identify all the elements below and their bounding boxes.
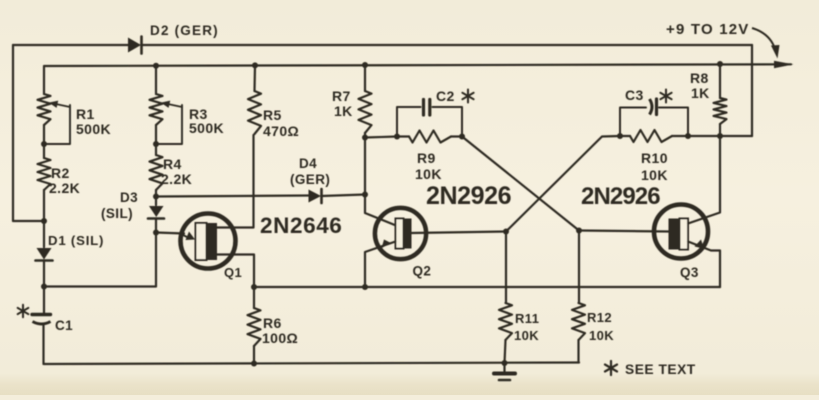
node R4-D4 junction: [153, 194, 159, 200]
wire R7 bottom to Q2 collector: [365, 133, 396, 226]
label 100ohm: [262, 330, 298, 346]
label 1K (R8): [691, 85, 710, 101]
label R7: [332, 88, 351, 104]
capacitor C1: [32, 315, 51, 325]
svg-text:R2: R2: [51, 165, 70, 181]
label R9: [417, 150, 436, 166]
wire R7 node to R9: [365, 137, 397, 138]
asterisk C1: [18, 305, 29, 317]
node supply-R8: [717, 61, 723, 67]
label R5: [263, 107, 282, 123]
wire C1 to bottom rail: [42, 325, 44, 364]
node Q2 base column: [503, 229, 509, 235]
resistor R5: [248, 91, 261, 134]
label Q1: [224, 265, 242, 280]
svg-text:R8: R8: [690, 70, 709, 86]
wire R11 bottom lead: [505, 340, 506, 363]
label 10K (R11): [514, 328, 539, 343]
capacitor C2 plates: [424, 100, 430, 116]
wire R4/D3 node to D4: [156, 196, 309, 197]
svg-text:R4: R4: [163, 156, 182, 172]
wire R1-R2: [43, 125, 45, 158]
wire R9 leads: [397, 135, 462, 137]
label C1: [55, 318, 73, 333]
svg-text:D1 (SIL): D1 (SIL): [48, 233, 104, 248]
svg-text:470Ω: 470Ω: [263, 123, 299, 139]
pot wiper arrow R3: [161, 101, 182, 108]
node R9 left: [394, 134, 400, 140]
wire R8 leads: [719, 64, 721, 136]
svg-text:D4: D4: [299, 156, 317, 171]
wire R10 leads: [620, 135, 688, 137]
label (GER) for D4: [290, 172, 330, 187]
svg-text:(GER): (GER): [290, 172, 330, 187]
label 500K: [76, 121, 111, 137]
node supply-R5: [252, 62, 258, 68]
wire R6 leads: [253, 287, 255, 364]
svg-text:Q3: Q3: [680, 265, 699, 280]
svg-text:C3: C3: [625, 87, 644, 103]
asterisk C3: [660, 90, 671, 103]
wire top rail right segment (D2 cathode to right corner): [142, 44, 753, 46]
node supply-R3: [153, 63, 159, 69]
wire R3-R4: [155, 125, 157, 155]
node R9 right: [459, 134, 465, 140]
svg-text:10K: 10K: [514, 328, 539, 343]
svg-text:1K: 1K: [334, 103, 353, 119]
label SEE TEXT: [625, 362, 696, 377]
label R3: [189, 106, 208, 122]
arrow Q1 emitter: [180, 232, 195, 241]
label C2: [436, 88, 455, 104]
svg-text:SEE TEXT: SEE TEXT: [625, 362, 696, 377]
label R2: [51, 165, 70, 181]
svg-text:R12: R12: [587, 310, 612, 325]
label (SIL) for D3: [101, 206, 133, 221]
wire Q2 base node to R11: [505, 232, 507, 304]
label 470ohm: [263, 123, 299, 139]
wire supply-R5: [253, 65, 256, 91]
svg-text:2N2926: 2N2926: [426, 182, 511, 210]
wire D1-C1 node: [43, 261, 45, 315]
wire R1 wiper loop: [44, 105, 70, 144]
resistor R7: [359, 91, 372, 133]
wire left vertical bus: [13, 45, 44, 221]
wire D3 to Q1 emitter node: [155, 219, 157, 235]
wire +V supply rail: [44, 64, 791, 94]
resistor R12: [572, 303, 585, 340]
label R1: [76, 106, 95, 122]
label 2N2646: [260, 213, 342, 238]
transistor Q2 body circle: [375, 208, 426, 259]
resistor R8: [714, 98, 727, 124]
svg-text:2.2K: 2.2K: [161, 171, 192, 187]
svg-text:(SIL): (SIL): [101, 206, 133, 221]
label D2 (GER): [150, 23, 219, 38]
label 2N2926 (Q2): [426, 182, 511, 210]
resistor R2: [38, 158, 51, 190]
Q2 base bar black half: [404, 219, 412, 249]
label 2.2K: [49, 180, 80, 196]
wire R2-D1: [43, 190, 45, 247]
arrowhead supply rail: [774, 61, 794, 68]
wire Q1 B1 to R6 node: [217, 255, 254, 288]
svg-text:C2: C2: [436, 88, 455, 104]
resistor R6: [248, 308, 261, 346]
label 1K (R7): [334, 103, 353, 119]
node Q3 base column: [576, 228, 582, 234]
resistor R3 (potentiometer): [150, 94, 163, 125]
wire supply-R3: [155, 66, 157, 94]
label D1 (SIL): [48, 233, 104, 248]
label Q3: [680, 265, 699, 280]
wire Q3 emitter: [688, 242, 720, 288]
wire bottom rail: [44, 363, 579, 365]
svg-text:R10: R10: [641, 150, 668, 166]
svg-text:D3: D3: [120, 190, 138, 205]
wire D1 node to Q1 emitter line: [44, 233, 156, 287]
Q2 base bar white half: [396, 219, 404, 249]
node D1-C1: [41, 284, 47, 290]
node R6 bottom: [251, 361, 257, 367]
node R7-D4: [362, 192, 368, 198]
wire Q3 collector: [688, 136, 720, 224]
pot wiper arrow R1: [49, 101, 70, 108]
node R3 bottom: [153, 141, 159, 147]
svg-text:10K: 10K: [641, 167, 668, 183]
svg-text:R1: R1: [76, 106, 95, 122]
wire Q2 base: [412, 232, 507, 234]
node R1 bottom: [41, 141, 47, 147]
node Q1 emitter junction: [153, 230, 159, 236]
wire R12 bottom lead: [577, 340, 579, 363]
svg-text:R9: R9: [417, 150, 436, 166]
label R10: [641, 150, 668, 166]
capacitor C3 plates: [650, 99, 657, 115]
wire D4 to Q2 collector node: [322, 195, 366, 197]
wire R3 wiper loop: [156, 105, 182, 144]
Q3 base bar black half: [669, 219, 680, 250]
label R8: [690, 70, 709, 86]
wire top rail left segment (to D2 anode): [13, 44, 129, 46]
label +9 TO 12V: [666, 21, 750, 38]
label R11: [515, 311, 539, 326]
diode D1: [36, 248, 53, 261]
label 10K (R9): [415, 166, 442, 182]
svg-text:Q1: Q1: [224, 265, 242, 280]
svg-text:500K: 500K: [76, 121, 111, 137]
capacitor C2 branch: [397, 107, 462, 137]
diode D3: [148, 206, 164, 219]
wire R4-D3: [155, 190, 157, 205]
Q1 base bar black half: [207, 223, 218, 260]
Q1 base bar white half: [196, 223, 207, 260]
svg-text:Q2: Q2: [413, 264, 432, 279]
asterisk SEE TEXT: [605, 361, 617, 375]
arrow Q3 emitter (points outward): [695, 240, 705, 249]
resistor R10: [630, 130, 672, 142]
ground symbol: [494, 363, 515, 380]
transistor Q3 body circle: [654, 205, 708, 259]
wire supply-R7: [364, 65, 366, 91]
resistor R9: [409, 131, 451, 143]
resistor R4: [150, 155, 163, 190]
capacitor C3 branch: [620, 108, 688, 137]
node R10 left: [617, 133, 623, 139]
svg-text:R11: R11: [515, 311, 539, 326]
wire Q1 B2 to R5: [217, 135, 254, 228]
resistor R11: [499, 303, 512, 340]
wire right drop from top rail: [751, 45, 753, 136]
node Q2 emitter rail: [362, 284, 368, 290]
svg-text:500K: 500K: [189, 120, 224, 136]
svg-text:2.2K: 2.2K: [49, 180, 80, 196]
asterisk C2: [462, 90, 473, 103]
diode D4: [309, 189, 322, 203]
label R12: [587, 310, 612, 325]
resistor R1 (potentiometer): [38, 94, 51, 125]
wire emitter rail: [254, 286, 720, 288]
label 2.2K (R4): [161, 171, 192, 187]
label 500K (R3): [189, 120, 224, 136]
svg-text:100Ω: 100Ω: [262, 330, 298, 346]
node R7-R9: [362, 135, 368, 141]
svg-text:10K: 10K: [589, 328, 614, 343]
svg-text:R5: R5: [263, 107, 282, 123]
wire Q3 base node to R12: [578, 231, 580, 304]
diode D2: [128, 37, 142, 54]
label R6: [263, 315, 282, 331]
svg-text:R7: R7: [332, 88, 351, 104]
node R2-D1 left bus junction: [41, 218, 47, 224]
label 2N2926 (Q3): [581, 183, 660, 210]
node C3 right: [685, 133, 691, 139]
label D3: [120, 190, 138, 205]
svg-text:C1: C1: [55, 318, 73, 333]
svg-text:10K: 10K: [415, 166, 442, 182]
svg-text:D2 (GER): D2 (GER): [150, 23, 219, 38]
Q3 base bar white half: [680, 219, 689, 250]
svg-text:2N2646: 2N2646: [260, 213, 342, 238]
node R11 ground: [502, 360, 508, 366]
wire Q1 emitter lead: [156, 233, 184, 234]
node R8 bottom: [717, 133, 723, 139]
svg-text:2N2926: 2N2926: [581, 183, 660, 210]
node B1-R6: [251, 284, 257, 290]
label D4: [299, 156, 317, 171]
node supply-R7: [362, 62, 368, 68]
transistor Q1 body circle: [181, 214, 236, 269]
label Q2: [413, 264, 432, 279]
wire Q3 base lead: [579, 231, 669, 232]
arrow Q2 emitter (points to bar): [382, 240, 391, 249]
label 10K (R12): [589, 328, 614, 343]
curved arrow to supply rail: [752, 28, 780, 59]
wire R10 node to right corner: [688, 135, 752, 137]
svg-text:+9 TO 12V: +9 TO 12V: [666, 21, 750, 38]
svg-text:R6: R6: [263, 315, 282, 331]
label C3: [625, 87, 644, 103]
wire R9 to Q3 base (diagonal): [462, 137, 579, 231]
label 10K (R10): [641, 167, 668, 183]
wire Q2 emitter: [365, 242, 396, 288]
wire Q2 base to R10 (diagonal): [506, 136, 620, 232]
label R4: [163, 156, 182, 172]
svg-text:1K: 1K: [691, 85, 710, 101]
